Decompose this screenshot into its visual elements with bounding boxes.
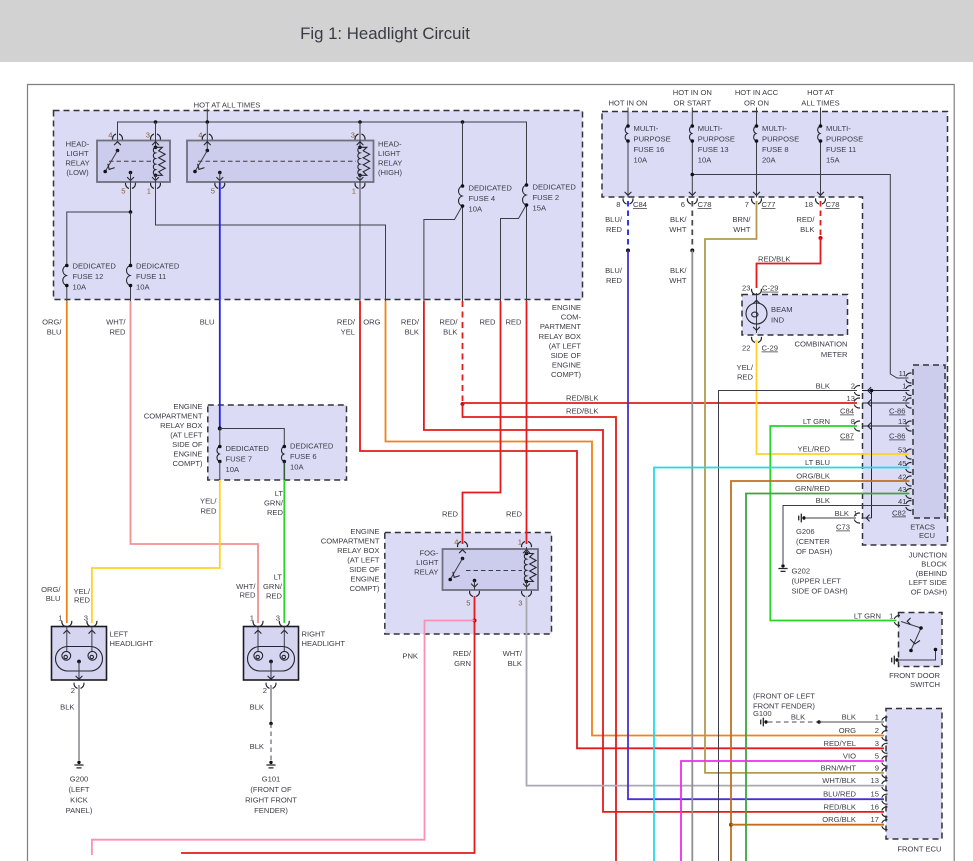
svg-text:FENDER): FENDER) (254, 806, 288, 815)
svg-text:GRN/: GRN/ (263, 582, 283, 591)
wire: multipurpose fuse 16 feed (627, 108, 629, 127)
wire RED/BLK: splice to combination meter pin 23 (757, 238, 821, 288)
svg-text:YEL/RED: YEL/RED (798, 445, 831, 454)
svg-text:45: 45 (898, 459, 906, 468)
left headlight bulb stadium (56, 647, 103, 672)
svg-text:BLU/: BLU/ (605, 266, 623, 275)
node: fuse 13 branch dot (691, 173, 695, 177)
wire: fuse 12 bottom to box edge (66, 287, 68, 302)
C84 pin2 connector arc (854, 386, 860, 396)
svg-text:G100: G100 (753, 709, 772, 718)
wire: relay low pin 5 to junction and fuse 12 (67, 182, 131, 266)
svg-text:22: 22 (742, 344, 750, 353)
wire BLK: C84 pin 2 row and down to bottom edge (719, 391, 858, 861)
wire: fuse 13 output to exit pin 6 (691, 142, 693, 198)
svg-text:PURPOSE: PURPOSE (762, 135, 799, 144)
svg-text:HOT AT ALL TIMES: HOT AT ALL TIMES (194, 101, 261, 110)
svg-text:10A: 10A (469, 205, 483, 214)
svg-text:IND: IND (771, 316, 785, 325)
low relay mechanical dashed link (109, 160, 152, 162)
svg-text:BLU: BLU (200, 318, 215, 327)
svg-text:(BEHIND: (BEHIND (916, 569, 948, 578)
engine compartment relay box 2 (mid-left, dashed lavender) (208, 405, 347, 480)
multipurpose fuse 16 (625, 124, 630, 143)
svg-text:2: 2 (263, 686, 267, 695)
beam indicator entry arc pin 23 (752, 289, 762, 295)
svg-text:1: 1 (250, 614, 254, 623)
C73 pin1 connector arc (854, 513, 860, 523)
svg-text:MULTI-: MULTI- (762, 124, 787, 133)
svg-text:WHT: WHT (733, 225, 751, 234)
svg-text:RED/BLK: RED/BLK (758, 255, 791, 264)
headlight relay (low) internals: pin4 cap (113, 134, 123, 140)
svg-text:PURPOSE: PURPOSE (634, 135, 671, 144)
svg-text:15A: 15A (826, 156, 840, 165)
wire: junction down to fuse 11 (130, 212, 132, 266)
svg-text:HEADLIGHT: HEADLIGHT (302, 639, 346, 648)
svg-text:COM-: COM- (561, 313, 582, 322)
svg-text:ENGINE: ENGINE (173, 450, 202, 459)
svg-text:4: 4 (454, 538, 458, 547)
pin 1 cup (151, 183, 161, 189)
multipurpose fuse 8 (754, 124, 759, 143)
node: blk junction at ETACS pin1 (870, 389, 874, 393)
svg-text:13: 13 (898, 417, 906, 426)
svg-text:10A: 10A (226, 465, 240, 474)
wire WHT/RED: fuse 11 to right headlight pin 1 (131, 301, 259, 623)
svg-text:42: 42 (898, 473, 906, 482)
wire: dedicated fuse 4 output straight down (462, 206, 464, 302)
svg-text:YEL/: YEL/ (200, 497, 217, 506)
svg-text:RELAY: RELAY (414, 568, 438, 577)
svg-text:FRONT DOOR: FRONT DOOR (889, 671, 940, 680)
wire BLK: left headlight pin 2 to G200 (78, 685, 80, 761)
svg-text:RED: RED (266, 592, 283, 601)
wire LT BLU: ETACS pin 45 to bottom edge (654, 468, 910, 861)
right headlight pin 3 cup (279, 621, 289, 627)
svg-text:COMPT): COMPT) (551, 370, 581, 379)
svg-text:ENGINE: ENGINE (552, 361, 581, 370)
low relay coil (153, 146, 165, 178)
wire ORG/BLK: branch to front ECU pin 17 (731, 824, 884, 826)
svg-text:FUSE 8: FUSE 8 (762, 145, 789, 154)
svg-text:G206: G206 (796, 527, 815, 536)
svg-text:3: 3 (276, 614, 280, 623)
ETACS pin 41 arc (906, 501, 912, 511)
svg-text:KICK: KICK (70, 796, 88, 805)
svg-text:18: 18 (805, 200, 813, 209)
fog relay pin 5 exit (471, 584, 478, 587)
wire: C84 pin13 arc to ETACS pin 2 (862, 402, 910, 404)
svg-text:SIDE OF: SIDE OF (551, 351, 582, 360)
ETACS pin 11 arc (906, 373, 912, 383)
front door switch box (dashed lavender) (899, 613, 943, 667)
svg-text:5: 5 (466, 599, 470, 608)
svg-text:RED/BLK: RED/BLK (566, 406, 599, 415)
left headlight filaments (62, 651, 71, 660)
high relay pin5 contact dot and lead (218, 171, 222, 175)
svg-text:C82: C82 (892, 509, 906, 518)
svg-text:BLK: BLK (842, 713, 856, 722)
wire BLK/WHT dashed: C78 pin 6 (691, 201, 693, 251)
svg-text:YEL: YEL (341, 328, 355, 337)
svg-text:FUSE 11: FUSE 11 (826, 145, 856, 154)
svg-text:1: 1 (147, 187, 151, 196)
left headlight pin 3 cup (87, 621, 97, 627)
wire: fuse 11 output to exit pin 18 (820, 142, 822, 198)
ground front door switch (892, 656, 899, 665)
wire RED/BLK dashed: box1 down to junction (462, 301, 464, 401)
svg-text:RED: RED (505, 318, 522, 327)
low relay switch (103, 149, 119, 174)
svg-text:RED: RED (606, 225, 623, 234)
ETACS ECU inner box (dashed) (913, 365, 945, 518)
svg-text:RED/: RED/ (401, 318, 420, 327)
svg-text:PANEL): PANEL) (66, 806, 93, 815)
svg-text:BEAM: BEAM (771, 305, 793, 314)
right headlight common dot and exit (269, 660, 273, 664)
wire: fuse 16 output to exit pin 8 (627, 142, 629, 198)
svg-text:MULTI-: MULTI- (826, 124, 851, 133)
svg-text:RELAY: RELAY (378, 159, 402, 168)
fog relay arrows top (459, 550, 466, 553)
svg-text:8: 8 (851, 417, 855, 426)
svg-text:DEDICATED: DEDICATED (136, 262, 180, 271)
svg-text:BLK/: BLK/ (670, 215, 687, 224)
svg-text:4: 4 (108, 131, 112, 140)
multipurpose fuse 13 (689, 124, 694, 143)
svg-text:RED: RED (737, 373, 754, 382)
svg-text:DEDICATED: DEDICATED (73, 262, 117, 271)
svg-text:WHT: WHT (669, 276, 687, 285)
dedicated fuse 6 (281, 445, 286, 464)
svg-text:RED: RED (267, 508, 284, 517)
svg-text:C87: C87 (840, 432, 854, 441)
arrowhead on door switch arm (910, 639, 920, 644)
svg-text:PURPOSE: PURPOSE (698, 135, 735, 144)
fog light relay box (dashed lavender) (385, 533, 552, 635)
wire: dedicated fuse 4 output diagonal to RED/BLK column (424, 206, 463, 302)
wire BLK: ETACS pin 41 to G202 (783, 506, 910, 565)
svg-text:HOT AT: HOT AT (807, 88, 834, 97)
fuse 6 lead to box edge (283, 462, 285, 481)
fog relay pin 1 cap (522, 542, 532, 548)
ETACS pin 42 arc (906, 476, 912, 486)
svg-text:4: 4 (198, 131, 202, 140)
pin 3 cap (151, 134, 161, 140)
node: right headlight blk dot (269, 722, 273, 726)
svg-text:15A: 15A (533, 204, 547, 213)
svg-text:BRN/WHT: BRN/WHT (821, 763, 857, 772)
dedicated fuse 2 (523, 183, 529, 207)
wire BRN/WHT: C77 pin 7 to front ECU pin 9 (705, 201, 884, 773)
svg-text:FRONT ECU: FRONT ECU (897, 845, 941, 854)
wire RED/YEL: box1 to front ECU pin 3 (360, 301, 884, 748)
svg-text:OR ON: OR ON (744, 98, 769, 107)
svg-text:53: 53 (898, 446, 906, 455)
wire BLK: right headlight pin 2 to junction (270, 685, 272, 724)
svg-text:3: 3 (875, 739, 879, 748)
svg-text:(AT LEFT: (AT LEFT (549, 341, 582, 350)
svg-text:BLK: BLK (800, 225, 814, 234)
front ECU pin arcs 1,2,3,5,9,13,15,16,17 (882, 717, 888, 727)
wire: bus drop to dedicated fuse 4 (462, 122, 464, 186)
pin 5 cup (126, 183, 136, 189)
svg-text:1: 1 (58, 614, 62, 623)
svg-text:LT: LT (275, 489, 284, 498)
svg-text:ENGINE: ENGINE (350, 527, 379, 536)
svg-text:15: 15 (871, 790, 879, 799)
wire RED/BLK dashed: C78 pin 18 (820, 201, 822, 238)
high relay mechanical dashed link (198, 160, 356, 162)
wire: dedicated fuse 2 output straight down (526, 205, 528, 302)
svg-text:C-86: C-86 (889, 432, 905, 441)
svg-text:1: 1 (518, 538, 522, 547)
fog relay pin5 contact dot and lead (473, 579, 477, 583)
svg-text:FUSE 16: FUSE 16 (634, 145, 665, 154)
svg-text:WHT/BLK: WHT/BLK (822, 776, 856, 785)
wire RED/BLK: junction to C84 pin 13 (upper run) (463, 402, 858, 404)
ground G200 (74, 761, 83, 768)
svg-text:SIDE OF: SIDE OF (349, 565, 380, 574)
svg-text:Fig 1: Headlight Circuit: Fig 1: Headlight Circuit (300, 24, 470, 43)
svg-text:HEAD-: HEAD- (66, 140, 90, 149)
arrows low relay (114, 142, 121, 145)
svg-text:23: 23 (742, 284, 750, 293)
wire RED/BLK: box1 to front ECU pin 16 (424, 301, 884, 812)
svg-text:ORG: ORG (839, 726, 856, 735)
svg-text:BLK: BLK (791, 713, 805, 722)
ground G202 (778, 564, 787, 571)
dedicated fuse 11 (127, 264, 133, 288)
svg-text:BLU: BLU (47, 328, 62, 337)
ETACS pin 2 arc (906, 398, 912, 408)
svg-text:13: 13 (871, 776, 879, 785)
svg-text:(LOW): (LOW) (66, 168, 89, 177)
svg-text:RIGHT: RIGHT (302, 630, 326, 639)
node: pin5 junction (129, 210, 133, 214)
svg-text:10A: 10A (136, 283, 150, 292)
svg-text:DEDICATED: DEDICATED (290, 442, 334, 451)
svg-text:FUSE 6: FUSE 6 (290, 452, 317, 461)
svg-text:5: 5 (875, 752, 879, 761)
svg-text:WHT/: WHT/ (106, 318, 126, 327)
node: fog pin5 junction (473, 619, 477, 623)
svg-text:COMPT): COMPT) (350, 584, 380, 593)
svg-text:17: 17 (871, 815, 879, 824)
node: red/blk splice (819, 236, 823, 240)
wire: bus drop to relay high pin 4 (206, 122, 208, 151)
svg-text:G200: G200 (70, 775, 89, 784)
dedicated fuse 12 (63, 264, 69, 288)
svg-text:RELAY BOX: RELAY BOX (160, 421, 202, 430)
wire ORG: box1 to front ECU pin 2 (386, 301, 885, 736)
wire PNK: junction to bottom left (92, 621, 475, 856)
wire: bus drop to relay low pin 3 (155, 122, 157, 147)
wire RED: fuse 2 col to fog relay pin 1 (526, 301, 528, 544)
svg-text:VIO: VIO (843, 752, 856, 761)
svg-text:8: 8 (616, 200, 620, 209)
high relay coil (358, 146, 370, 178)
svg-text:FUSE 12: FUSE 12 (73, 272, 104, 281)
left headlight common dot and exit (77, 660, 81, 664)
svg-text:10A: 10A (73, 283, 87, 292)
dedicated fuse 4 (459, 184, 465, 208)
svg-text:BLOCK: BLOCK (921, 560, 947, 569)
svg-text:SWITCH: SWITCH (910, 680, 940, 689)
engine compartment relay box 1 (top, dashed lavender) (54, 111, 583, 300)
svg-text:G101: G101 (262, 775, 281, 784)
ground G206 (799, 514, 806, 523)
front door switch pin 1 arc (894, 616, 900, 626)
svg-text:RED/YEL: RED/YEL (824, 739, 857, 748)
node: red/blk junction (461, 402, 465, 406)
svg-text:RED/BLK: RED/BLK (566, 394, 599, 403)
svg-text:10A: 10A (634, 156, 648, 165)
right headlight box (244, 627, 299, 681)
svg-text:3: 3 (146, 131, 150, 140)
wire: multipurpose fuse 11 feed (820, 108, 822, 127)
wire YEL/RED: fuse 7 to left headlight pin 3 (92, 480, 220, 623)
svg-text:ALL TIMES: ALL TIMES (801, 98, 839, 107)
right headlight pin 1 cup (253, 621, 263, 627)
node: blu/red splice (626, 249, 630, 253)
wire: beam indicator internal (756, 293, 758, 333)
svg-text:PARTMENT: PARTMENT (540, 322, 581, 331)
svg-text:LEFT: LEFT (110, 630, 129, 639)
svg-text:RED/: RED/ (453, 649, 472, 658)
fog relay pin 4 cap (458, 542, 468, 548)
C87 pin8 connector arc (854, 421, 860, 431)
svg-text:HEADLIGHT: HEADLIGHT (110, 639, 154, 648)
wire: fuse 8 output to exit pin 7 (756, 142, 758, 198)
svg-text:RED/BLK: RED/BLK (824, 802, 857, 811)
svg-text:ORG/BLK: ORG/BLK (822, 815, 856, 824)
svg-text:16: 16 (871, 802, 879, 811)
svg-text:(LEFT: (LEFT (68, 785, 89, 794)
left headlight box (52, 627, 107, 681)
svg-text:3: 3 (351, 131, 355, 140)
svg-text:(FRONT OF: (FRONT OF (250, 785, 292, 794)
headlight relay (high) internals: pin4 cap (202, 134, 212, 140)
wire BLK dashed: to G101 (270, 724, 272, 761)
svg-text:C77: C77 (762, 200, 776, 209)
svg-text:RED: RED (239, 591, 256, 600)
svg-text:C84: C84 (840, 407, 854, 416)
svg-text:RED: RED (74, 596, 91, 605)
wire: fuse 13 branch across to junction block vertical (692, 175, 908, 379)
fog light relay inner box (443, 549, 539, 590)
svg-text:YEL/: YEL/ (737, 363, 754, 372)
wire BLK dashed: G100 to splice (768, 721, 819, 723)
wire: relay high pin 1 down (RED/YEL inside box) (359, 182, 361, 301)
wire BLK/WHT solid: down to bottom edge (691, 251, 693, 861)
wire BLK: splice to front ECU pin 1 (819, 721, 884, 723)
svg-text:20A: 20A (762, 156, 776, 165)
svg-text:PNK: PNK (402, 652, 418, 661)
svg-text:LIGHT: LIGHT (416, 558, 439, 567)
svg-text:ORG/BLK: ORG/BLK (796, 472, 830, 481)
svg-text:FUSE 7: FUSE 7 (226, 455, 253, 464)
svg-text:FUSE 2: FUSE 2 (533, 193, 560, 202)
svg-text:LEFT SIDE: LEFT SIDE (909, 578, 947, 587)
node: g100 splice (817, 720, 821, 724)
svg-text:LIGHT: LIGHT (66, 149, 89, 158)
ETACS pin 45 arc (906, 463, 912, 473)
wire: C84 pin2 arc to ETACS pin 1 with branch down (862, 391, 910, 519)
title header bar (0, 0, 973, 62)
svg-text:WHT/: WHT/ (503, 649, 523, 658)
svg-text:43: 43 (898, 485, 906, 494)
svg-text:DEDICATED: DEDICATED (533, 183, 577, 192)
svg-text:RED: RED (442, 510, 459, 519)
svg-text:1: 1 (853, 509, 857, 518)
svg-text:(HIGH): (HIGH) (378, 168, 403, 177)
wire ORG/BLK: ETACS pin 42 to bottom edge (731, 481, 910, 861)
node: door switch pivot (919, 626, 923, 630)
svg-text:JUNCTION: JUNCTION (909, 551, 947, 560)
svg-text:RED: RED (479, 318, 496, 327)
right headlight filaments (254, 651, 263, 660)
svg-text:(AT LEFT: (AT LEFT (347, 556, 380, 565)
svg-text:BLU/RED: BLU/RED (823, 790, 856, 799)
node: org/blk dot at front ECU branch (729, 823, 733, 827)
beam indicator bulb (746, 303, 767, 324)
svg-text:BLU: BLU (46, 594, 61, 603)
svg-text:C78: C78 (698, 200, 712, 209)
fog relay switch (448, 557, 464, 582)
svg-text:2: 2 (71, 686, 75, 695)
svg-text:5: 5 (211, 187, 215, 196)
svg-text:41: 41 (898, 497, 906, 506)
svg-text:COMBINATION: COMBINATION (794, 340, 847, 349)
wire: front door switch internal (899, 622, 936, 661)
wire BLU/RED solid: down to front ECU pin 15 (628, 251, 884, 800)
svg-text:HEAD-: HEAD- (378, 140, 402, 149)
svg-text:1: 1 (352, 187, 356, 196)
svg-text:G202: G202 (792, 567, 811, 576)
svg-text:BLK/: BLK/ (670, 266, 687, 275)
svg-text:ORG/: ORG/ (42, 318, 62, 327)
left headlight pin leads (67, 627, 92, 652)
wire RED: fuse 2 col to fog relay pin 4 (463, 301, 501, 544)
svg-text:MULTI-: MULTI- (698, 124, 723, 133)
svg-text:BLK: BLK (816, 496, 830, 505)
svg-text:2: 2 (851, 382, 855, 391)
pin 5 cup (215, 183, 225, 189)
svg-text:10A: 10A (698, 156, 712, 165)
svg-text:BLK: BLK (816, 382, 830, 391)
svg-text:9: 9 (875, 763, 879, 772)
svg-text:LIGHT: LIGHT (378, 149, 401, 158)
wire BLK: G206 to C73 pin 1 and up (806, 517, 872, 519)
svg-text:FUSE 4: FUSE 4 (469, 194, 496, 203)
svg-text:BLK: BLK (405, 328, 419, 337)
svg-text:RELAY: RELAY (65, 159, 89, 168)
svg-text:BLK: BLK (443, 328, 457, 337)
node: door switch arm end (909, 649, 913, 653)
wire: fuse 11 bottom to box edge (130, 287, 132, 302)
svg-text:COMPT): COMPT) (173, 459, 203, 468)
fog relay pin 3 exit (523, 584, 530, 587)
fog relay mechanical dashed link (466, 570, 522, 572)
svg-text:RED: RED (109, 328, 126, 337)
junction block lavender region (fuse box + right strip) (602, 112, 948, 546)
wire WHT/BLK: fog relay pin 3 to front ECU pin 13 (527, 596, 885, 786)
svg-text:RED/: RED/ (439, 318, 458, 327)
svg-text:RED/: RED/ (337, 318, 356, 327)
wire BLU/RED dashed: C84 pin 8 (627, 201, 629, 251)
